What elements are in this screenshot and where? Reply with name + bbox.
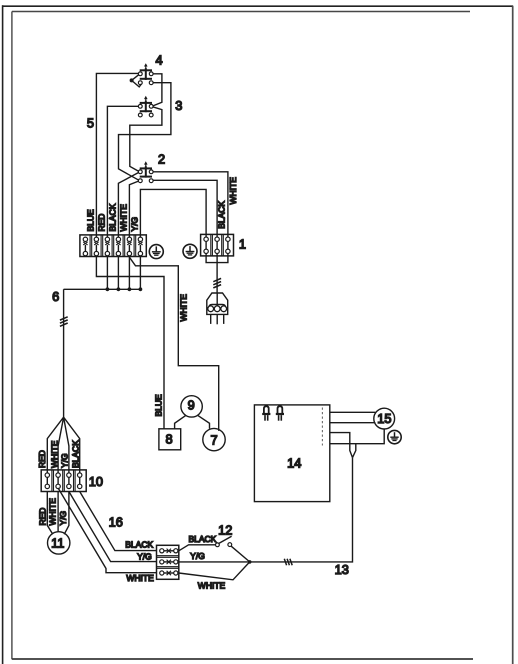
terminal block 10 (41, 470, 86, 492)
wire circle15 down to box wire (330, 429, 384, 444)
labels block10 top (37, 440, 81, 468)
svg-text:13: 13 (335, 562, 349, 577)
svg-text:12: 12 (218, 522, 232, 537)
svg-text:WHITE: WHITE (198, 581, 226, 591)
switch 12 (179, 536, 250, 562)
wire BLUE column to switch 4 (96, 73, 139, 237)
lamp circle 9 (181, 396, 202, 417)
svg-text:14: 14 (287, 456, 301, 471)
svg-text:4: 4 (155, 52, 162, 67)
svg-text:9: 9 (188, 397, 195, 412)
svg-text:RED: RED (97, 214, 107, 232)
ground G3 (388, 430, 401, 443)
svg-text:WHITE: WHITE (119, 204, 129, 232)
wire Y/G column to block1 left column (140, 189, 206, 237)
wires box14 to circle 15 (330, 412, 376, 422)
heater connector symbol A (262, 406, 270, 421)
ground G1 (149, 245, 163, 259)
circle 7 (203, 428, 225, 450)
appliance box 14 (254, 405, 329, 502)
wire Y/G to junction (179, 561, 250, 563)
svg-text:5: 5 (87, 115, 94, 130)
svg-text:WHITE: WHITE (48, 498, 58, 526)
wire BLACK column to switch2 top-left (118, 172, 138, 237)
labels indicator wires (37, 498, 68, 526)
wire 9 to 7 (198, 415, 210, 428)
terminal block TB-A cell contacts (83, 237, 142, 256)
svg-text:Y/G: Y/G (58, 511, 68, 526)
wire fan to block 10 (47, 417, 79, 473)
terminal block TB-A (6 cells) (80, 235, 146, 257)
wire RED column to switch 3 (107, 106, 139, 237)
svg-text:1: 1 (239, 237, 246, 252)
wire block1 to plug with cable break (213, 253, 221, 293)
svg-text:RED: RED (37, 450, 47, 468)
svg-text:WHITE: WHITE (126, 573, 154, 583)
svg-text:WHITE: WHITE (178, 294, 188, 322)
svg-text:BLACK: BLACK (108, 203, 118, 231)
wire BLACK switch2 bottom-right to block1 middle column (153, 180, 218, 237)
svg-text:WHITE: WHITE (228, 177, 238, 205)
power plug (207, 293, 228, 324)
switch 2 (138, 161, 153, 182)
wire block1 bracket (206, 253, 228, 262)
junction dot (248, 560, 252, 564)
svg-text:Y/G: Y/G (137, 552, 152, 562)
svg-text:2: 2 (158, 151, 165, 166)
cable 16 wires to connector (58, 488, 156, 573)
wire switch4 bottom-right to sw2 bottom-left (119, 83, 171, 181)
wires block10 to indicator 11 (47, 492, 69, 535)
switch 4 (130, 63, 154, 87)
svg-text:3: 3 (175, 98, 182, 113)
wire 13 with break (250, 458, 353, 566)
svg-text:WHITE: WHITE (49, 440, 59, 468)
labels TB-A wires (86, 203, 140, 231)
wire WHITE branch to circle 7 (129, 257, 218, 431)
wire 9 to 8 (175, 415, 186, 428)
svg-text:BLUE: BLUE (154, 394, 164, 417)
svg-text:Y/G: Y/G (130, 217, 140, 232)
svg-text:BLACK: BLACK (216, 201, 226, 229)
wire switch4 top-right to switch3 top-right to sw2 top-left (130, 74, 162, 172)
svg-text:BLUE: BLUE (86, 209, 96, 232)
svg-text:Y/G: Y/G (60, 453, 70, 468)
labels cable16 left (125, 540, 154, 583)
svg-text:8: 8 (165, 432, 172, 447)
terminal block 1 (201, 234, 234, 256)
svg-text:BLACK: BLACK (125, 540, 153, 550)
wire merge V below box14 (330, 433, 356, 458)
wire bus below TB-A with junctions (64, 257, 143, 292)
svg-text:BLACK: BLACK (71, 440, 81, 468)
circle 15 (374, 408, 395, 429)
box 8 (159, 429, 181, 450)
svg-text:Y/G: Y/G (190, 551, 205, 561)
svg-text:16: 16 (109, 515, 123, 530)
svg-text:7: 7 (210, 432, 217, 447)
svg-text:6: 6 (52, 289, 59, 304)
connector block (3 rows) (157, 545, 179, 579)
svg-text:10: 10 (89, 474, 103, 489)
cable 6 with break (60, 289, 68, 417)
svg-text:11: 11 (51, 536, 64, 551)
wire BLUE to box 8 (96, 257, 164, 429)
wire WHITE column to switch2 bottom-left (129, 181, 138, 237)
heater connector symbol B (276, 406, 284, 421)
ground G2 (183, 244, 197, 258)
wire WHITE switch2 top-right to block1 right column (153, 172, 228, 237)
switch 3 (138, 96, 153, 117)
wire WHITE to junction (179, 562, 250, 580)
indicator 11 (48, 532, 70, 554)
svg-text:RED: RED (37, 508, 47, 526)
svg-text:15: 15 (377, 411, 391, 426)
svg-text:BLACK: BLACK (188, 534, 216, 544)
